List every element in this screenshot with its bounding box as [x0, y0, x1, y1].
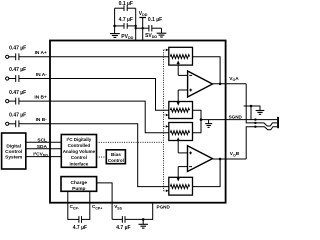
- wire PVDD cap left vertical: [114, 8, 116, 26]
- svg-text:4.7 µF: 4.7 µF: [119, 17, 133, 23]
- wire VOA riser to jack tip: [246, 84, 277, 126]
- wire SGND rail: [201, 119, 277, 121]
- wire SDA: [26, 148, 62, 150]
- dashed control bus I2C to ladders: [97, 50, 168, 191]
- svg-text:Control: Control: [71, 155, 87, 160]
- ground (headphone return): [244, 106, 265, 120]
- svg-text:IN A-: IN A-: [36, 72, 47, 78]
- capacitor C8 4.7uF flying: [68, 216, 90, 223]
- resistor ladder R3 (channel B positive input): [169, 123, 193, 141]
- node SGND rail junction: [200, 118, 203, 121]
- wire R2 to SGND rail: [193, 110, 202, 133]
- wire VDD stem / SVDD pin: [142, 18, 144, 41]
- svg-text:0.1 µF: 0.1 µF: [148, 17, 162, 23]
- node VDD rail junction: [142, 27, 144, 29]
- input terminal IN B-: [6, 122, 9, 125]
- svg-text:Charge: Charge: [71, 180, 88, 186]
- ground (PGND): [139, 219, 148, 228]
- svg-text:0.47 µF: 0.47 µF: [9, 90, 26, 96]
- svg-text:SGND: SGND: [229, 115, 243, 120]
- svg-text:PGND: PGND: [157, 205, 171, 210]
- svg-text:CCP-: CCP-: [70, 204, 80, 210]
- input terminal IN A-: [6, 77, 9, 80]
- resistor ladder R1 (channel A feedback): [169, 47, 193, 65]
- ground (PVDD caps): [110, 26, 120, 38]
- svg-text:0.47 µF: 0.47 µF: [9, 46, 26, 52]
- svg-text:System: System: [5, 154, 22, 160]
- svg-text:0.47 µF: 0.47 µF: [9, 67, 26, 73]
- dashed bus arrowheads into ladders: [166, 49, 169, 193]
- supply VDD terminal bar: [139, 17, 146, 19]
- capacitor C7 0.47uF: [9, 120, 19, 127]
- capacitor C2 4.7uF (PVDD): [115, 23, 136, 29]
- wire CCP+ pin: [89, 191, 91, 220]
- op-amp U3 (channel B): [188, 146, 213, 172]
- svg-text:PVDD: PVDD: [121, 34, 133, 40]
- box bias control: [106, 150, 125, 164]
- svg-text:VOB: VOB: [230, 151, 240, 157]
- node VOB feedback junction: [219, 158, 222, 161]
- wiper arrow of R1: [177, 64, 179, 76]
- svg-text:SCL: SCL: [37, 137, 47, 143]
- box I2C volume control interface U1a: [61, 135, 96, 168]
- wire U2 inverting input: [178, 74, 187, 76]
- svg-text:0.47 µF: 0.47 µF: [9, 113, 26, 119]
- svg-text:Analog Volume: Analog Volume: [63, 149, 96, 154]
- resistor ladder R4 (channel B feedback): [169, 177, 193, 195]
- svg-text:4.7 µF: 4.7 µF: [116, 225, 130, 231]
- svg-text:Pump: Pump: [72, 186, 85, 192]
- node jack ring contact: [254, 126, 256, 128]
- wire IN B+ to ladder R3: [19, 101, 169, 133]
- node VOA feedback junction: [219, 83, 222, 86]
- capacitor C4 0.47uF: [9, 53, 19, 60]
- svg-text:VDD: VDD: [139, 11, 148, 17]
- wire IN A- to ladder R2: [19, 79, 169, 111]
- capacitor C6 0.47uF: [9, 98, 19, 105]
- wire CCP- pin: [67, 191, 69, 220]
- wire I2CVDD: [26, 156, 62, 158]
- resistor ladder R2 (channel A positive input): [169, 102, 193, 119]
- svg-text:I²C Digitally: I²C Digitally: [67, 137, 92, 142]
- wire VDD rail: [136, 27, 149, 29]
- input terminal IN A+: [6, 55, 9, 58]
- wire U3 inverting input: [178, 166, 187, 168]
- capacitor C3 0.1uF (SVDD): [149, 25, 162, 33]
- svg-text:I²CVDD: I²CVDD: [33, 152, 48, 158]
- wire U2 output VOA: [213, 83, 247, 85]
- svg-text:VSS: VSS: [114, 204, 122, 210]
- node ground tap junction: [250, 105, 253, 108]
- wire U3 non-inverting input: [178, 152, 187, 154]
- capacitor C9 4.7uF (VSS): [112, 216, 153, 223]
- box digital control system: [2, 133, 26, 169]
- svg-text:Bias: Bias: [111, 152, 121, 157]
- IC outline U1: [50, 41, 226, 203]
- wiper arrow of R4: [177, 167, 179, 179]
- svg-text:IN B+: IN B+: [34, 95, 47, 101]
- svg-text:Controlled: Controlled: [68, 143, 91, 148]
- wire VSS from charge pump: [97, 183, 113, 220]
- wiper arrow of R3: [177, 140, 179, 153]
- headphone jack J1: [277, 117, 279, 128]
- box charge pump: [61, 177, 97, 192]
- wire PVDD pin vertical: [135, 8, 137, 40]
- svg-text:4.7 µF: 4.7 µF: [73, 225, 87, 231]
- wire VOB riser to jack ring: [246, 127, 277, 159]
- wire IN B- to ladder R4: [19, 124, 169, 187]
- wire U3 feedback from R4: [193, 159, 221, 187]
- input terminal IN B+: [6, 100, 9, 103]
- svg-text:SVDD: SVDD: [145, 33, 157, 39]
- svg-text:IN A+: IN A+: [35, 50, 47, 56]
- node PVDD cap gnd junction: [113, 25, 116, 28]
- svg-text:CCP+: CCP+: [92, 204, 102, 210]
- svg-text:VOA: VOA: [229, 76, 239, 82]
- wire PGND pin: [152, 203, 154, 220]
- svg-text:Control: Control: [108, 158, 124, 163]
- svg-text:SDA: SDA: [37, 144, 48, 150]
- node jack tip contact: [254, 122, 256, 124]
- svg-text:Interface: Interface: [70, 161, 89, 166]
- node PGND ground junction: [142, 218, 145, 221]
- svg-text:0.1 µF: 0.1 µF: [119, 1, 133, 7]
- svg-text:Digital: Digital: [6, 143, 21, 149]
- wire SCL: [26, 141, 62, 143]
- wire U3 output VOB: [213, 158, 247, 160]
- ground (SGND internal): [205, 120, 212, 128]
- svg-text:IN B-: IN B-: [36, 117, 48, 123]
- capacitor C1 0.1uF (PVDD top): [115, 5, 136, 11]
- ground (SVDD cap): [157, 33, 167, 37]
- wire U2 feedback from R1: [193, 57, 221, 84]
- svg-text:Control: Control: [5, 149, 22, 155]
- wiper arrow of R2: [177, 90, 179, 103]
- capacitor C5 0.47uF: [9, 75, 19, 82]
- wire IN A+ to ladder R1: [19, 56, 169, 58]
- node PVDD rail junctions: [135, 25, 137, 27]
- op-amp U2 (channel A): [188, 71, 213, 97]
- node jack sleeve contact: [254, 118, 256, 120]
- wire U2 non-inverting input: [178, 89, 187, 91]
